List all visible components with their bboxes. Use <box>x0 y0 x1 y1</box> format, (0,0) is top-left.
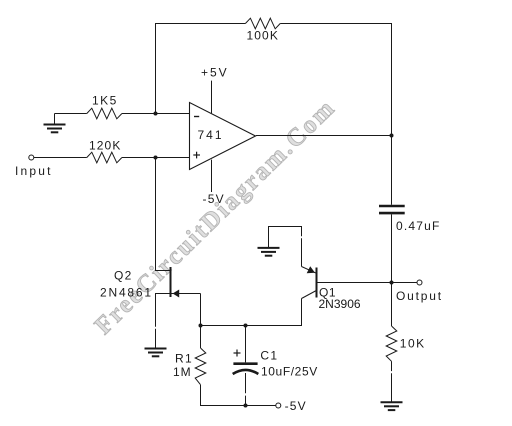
svg-text:0.47uF: 0.47uF <box>396 219 441 233</box>
svg-text:1M: 1M <box>173 365 192 379</box>
input terminal circle <box>29 155 34 160</box>
resistor 120K zigzag <box>87 152 122 163</box>
wire inverting input right <box>122 113 190 115</box>
wire C1 bottom upper segment <box>245 373 247 393</box>
svg-text:+5V: +5V <box>201 66 229 80</box>
svg-text:120K: 120K <box>89 139 121 153</box>
svg-text:741: 741 <box>198 128 224 142</box>
wire Q1 base to output node <box>318 282 392 284</box>
wire Q2 gate down to node A <box>200 294 202 326</box>
svg-text:R1: R1 <box>175 352 193 366</box>
op-amp U1 741 triangle <box>190 103 256 170</box>
svg-text:2N4861: 2N4861 <box>100 286 153 300</box>
wire noninverting input right <box>122 157 190 159</box>
wire output stub <box>392 282 418 284</box>
ground G2 (Q2 source) <box>145 349 167 357</box>
svg-text:10K: 10K <box>400 337 426 351</box>
wire Q1 emitter lead <box>301 238 303 266</box>
ground G3 (Q1 emitter) <box>258 248 280 256</box>
wire +5V supply lead <box>211 81 213 114</box>
junction dot J2 (noninverting node) <box>154 156 158 160</box>
svg-text:10uF/25V: 10uF/25V <box>261 365 318 379</box>
svg-text:-5V: -5V <box>203 192 225 206</box>
svg-text:Output: Output <box>396 289 443 303</box>
wire Q1 emitter to ground <box>269 227 302 248</box>
wire C1 bottom lower segment <box>245 396 247 406</box>
wire 10K to ground lower <box>391 373 393 402</box>
wire noninverting node down to Q2 drain <box>156 158 171 271</box>
resistor 10K zigzag <box>386 326 397 361</box>
transistor Q2 2N4861 JFET <box>156 267 201 349</box>
junction dot J1 (inverting node) <box>154 112 158 116</box>
-5V terminal circle <box>276 403 281 408</box>
wire R1 bottom <box>201 385 276 406</box>
wire input to 120K <box>34 157 87 159</box>
resistor R1 lead top <box>200 326 202 349</box>
transistor Q1 2N3906 <box>302 266 317 298</box>
watermark FreeCircuitDiagram.Com <box>90 94 341 340</box>
junction dot J4 (output node) <box>390 281 394 285</box>
wire -5V supply lead <box>211 160 213 192</box>
capacitor C1 plates <box>233 364 259 374</box>
ground G4 (10K) <box>381 402 403 410</box>
ground G1 (at 1K5) <box>44 114 66 133</box>
svg-text:2N3906: 2N3906 <box>319 297 361 311</box>
capacitor C1 lead top <box>245 326 247 363</box>
wire top feedback left segment <box>156 24 246 114</box>
svg-text:Input: Input <box>15 164 53 178</box>
plus sign C1 polarity <box>234 350 241 357</box>
wire cap bottom to output node <box>391 214 393 282</box>
junction dot J5 (C1 top) <box>244 324 248 328</box>
resistor 1K5 zigzag <box>87 108 122 119</box>
svg-text:C1: C1 <box>260 349 278 363</box>
junction dot J6 (C1 bottom) <box>244 404 248 408</box>
capacitor C2 0.47uF plates <box>379 206 405 213</box>
wire op-amp output <box>256 135 392 137</box>
wire 10K to ground upper <box>391 361 393 371</box>
svg-text:-5V: -5V <box>285 399 307 413</box>
resistor R1 1M zigzag <box>195 348 206 385</box>
svg-text:Q2: Q2 <box>114 269 133 283</box>
wire node A to Q1 collector <box>201 299 302 326</box>
wire top feedback right segment <box>280 24 391 205</box>
wire inverting input left <box>55 113 87 115</box>
svg-text:100K: 100K <box>247 29 279 43</box>
svg-text:1K5: 1K5 <box>92 94 118 108</box>
wire output node down to 10K <box>391 283 393 327</box>
junction dot J3 (op-amp output on right bus) <box>390 134 394 138</box>
output terminal circle <box>417 280 422 285</box>
junction dot node A <box>199 324 203 328</box>
resistor 100K zigzag <box>245 18 280 29</box>
